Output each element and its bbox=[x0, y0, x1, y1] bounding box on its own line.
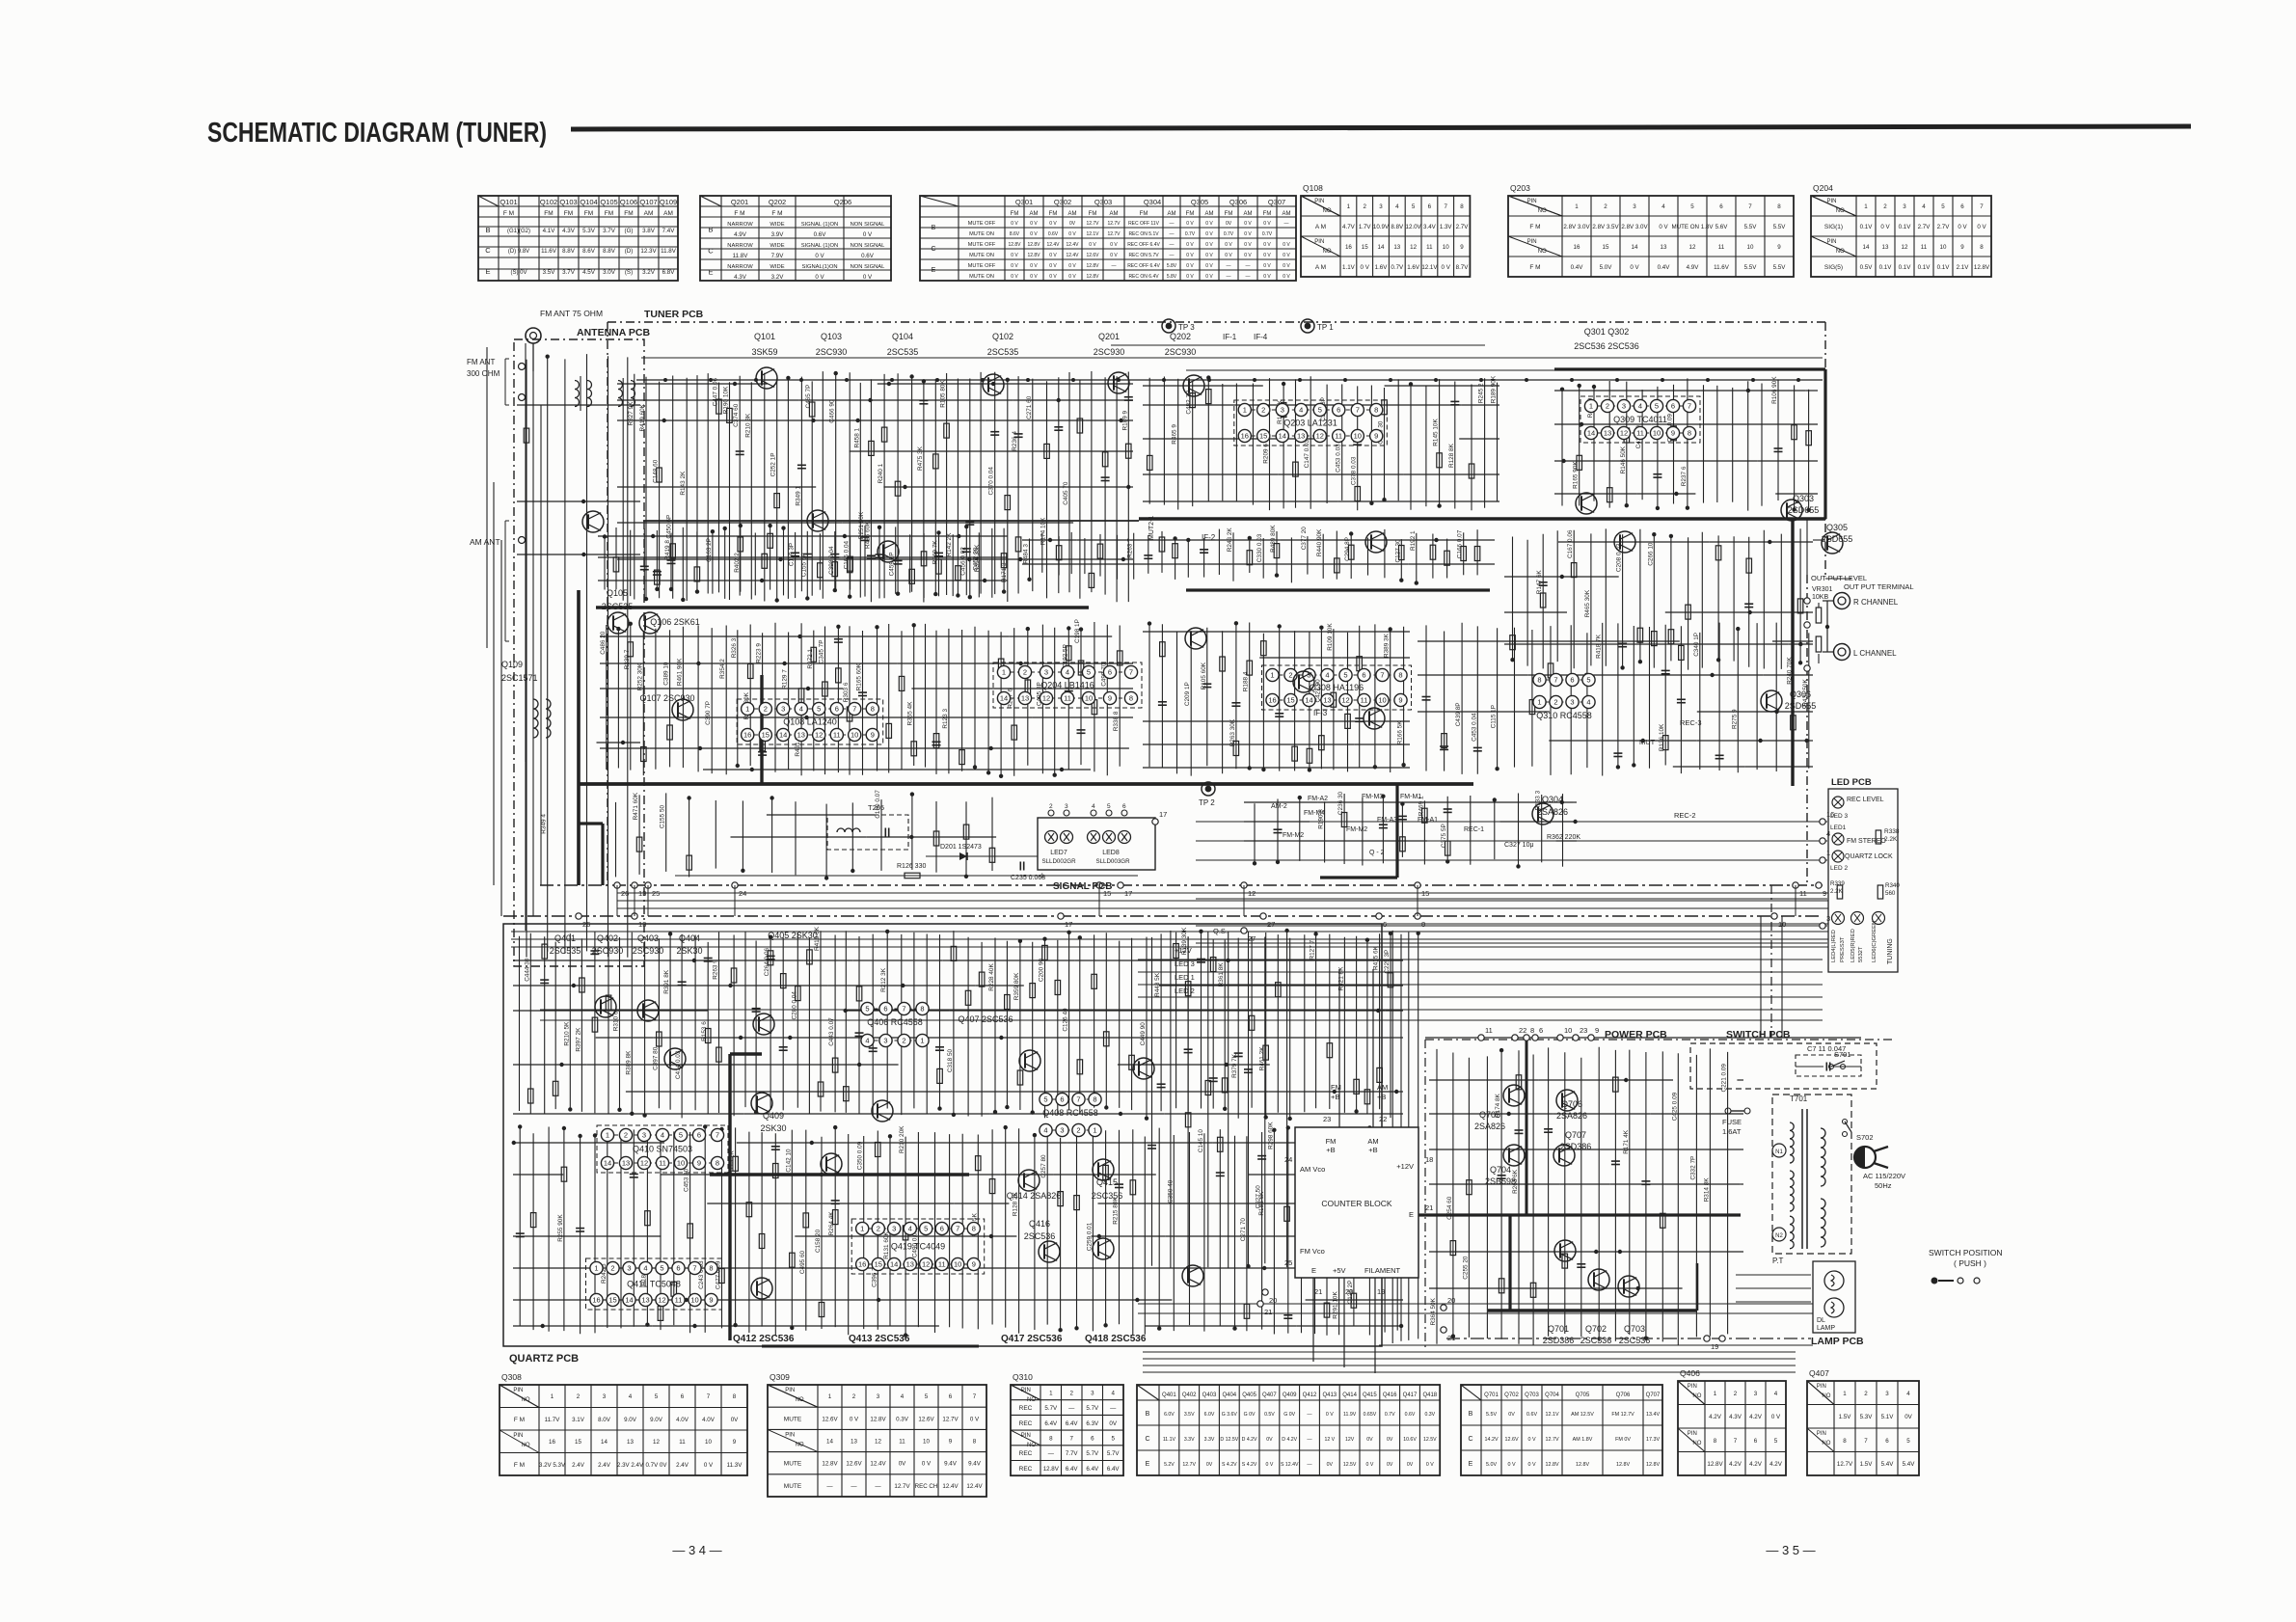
svg-text:LAMP PCB: LAMP PCB bbox=[1811, 1336, 1864, 1347]
wire cluster FM front end bbox=[617, 371, 1133, 603]
svg-text:12: 12 bbox=[1042, 694, 1050, 703]
svg-text:11: 11 bbox=[1636, 429, 1644, 438]
svg-text:REC: REC bbox=[1019, 1466, 1033, 1473]
svg-text:2SC930: 2SC930 bbox=[1165, 347, 1197, 357]
svg-text:C155 6P: C155 6P bbox=[800, 553, 807, 577]
transistor Q445 bbox=[872, 1100, 893, 1122]
transistor Q304 2SA826 bbox=[1532, 803, 1553, 825]
svg-text:C280 0.04: C280 0.04 bbox=[791, 991, 797, 1020]
svg-text:R440 90K: R440 90K bbox=[1316, 528, 1323, 556]
table Q701..Q707 voltages bbox=[1461, 1385, 1662, 1475]
svg-text:4.7V: 4.7V bbox=[1342, 224, 1356, 230]
svg-text:C340 1P: C340 1P bbox=[1693, 633, 1700, 657]
svg-text:R326 3: R326 3 bbox=[731, 637, 738, 658]
svg-text:NO: NO bbox=[522, 1397, 530, 1403]
svg-text:AM: AM bbox=[1068, 211, 1077, 217]
front-end top rail bbox=[636, 379, 1823, 381]
svg-text:—: — bbox=[1307, 1412, 1312, 1418]
svg-text:R314 8K: R314 8K bbox=[1703, 1177, 1710, 1203]
svg-text:SIG(1): SIG(1) bbox=[1824, 224, 1843, 230]
svg-text:12.8V: 12.8V bbox=[1707, 1461, 1723, 1468]
svg-text:0V: 0V bbox=[1327, 1462, 1334, 1468]
svg-text:R165 60K: R165 60K bbox=[856, 662, 863, 690]
svg-text:Q705: Q705 bbox=[1576, 1392, 1590, 1398]
svg-text:OUT PUT TERMINAL: OUT PUT TERMINAL bbox=[1844, 582, 1914, 591]
svg-text:Q201: Q201 bbox=[731, 198, 748, 206]
svg-text:0 V: 0 V bbox=[1030, 263, 1038, 269]
svg-text:R210 3K: R210 3K bbox=[744, 413, 751, 438]
svg-text:LED 3: LED 3 bbox=[1175, 960, 1195, 968]
svg-text:E: E bbox=[1469, 1461, 1473, 1468]
transistor Q113 bbox=[1365, 531, 1387, 553]
svg-text:MUTE OFF: MUTE OFF bbox=[968, 221, 996, 227]
svg-text:0.7V: 0.7V bbox=[1185, 231, 1196, 237]
svg-text:(G1)(G2): (G1)(G2) bbox=[507, 229, 530, 234]
svg-text:3: 3 bbox=[627, 1264, 631, 1273]
svg-text:AM: AM bbox=[644, 210, 654, 217]
svg-text:5.8V: 5.8V bbox=[1167, 274, 1177, 280]
svg-text:Q415: Q415 bbox=[1096, 1177, 1118, 1187]
svg-text:LED PCB: LED PCB bbox=[1831, 777, 1872, 788]
svg-text:5.7V: 5.7V bbox=[1086, 1450, 1099, 1457]
svg-text:REC ON 6.4V: REC ON 6.4V bbox=[1128, 274, 1159, 280]
svg-text:4: 4 bbox=[1111, 1390, 1115, 1396]
svg-text:14: 14 bbox=[1863, 244, 1870, 251]
table Tr Q401..Q418 voltages bbox=[1137, 1385, 1440, 1475]
svg-text:10: 10 bbox=[1747, 244, 1754, 251]
svg-text:C271 70: C271 70 bbox=[1240, 1218, 1247, 1242]
svg-text:8.7V: 8.7V bbox=[1456, 264, 1470, 271]
svg-text:11.7V: 11.7V bbox=[545, 1417, 561, 1423]
svg-text:6: 6 bbox=[1122, 803, 1126, 810]
svg-text:2: 2 bbox=[624, 1131, 628, 1140]
svg-text:Q407: Q407 bbox=[1262, 1392, 1277, 1398]
svg-text:3.7V: 3.7V bbox=[603, 228, 616, 234]
svg-text:11: 11 bbox=[1335, 432, 1342, 441]
svg-text:R397 2K: R397 2K bbox=[575, 1027, 581, 1052]
svg-text:Q201: Q201 bbox=[1098, 332, 1120, 341]
svg-text:3.7V: 3.7V bbox=[562, 269, 576, 276]
svg-text:REC ON 5.7V: REC ON 5.7V bbox=[1128, 253, 1159, 258]
svg-text:4: 4 bbox=[643, 1264, 647, 1273]
svg-text:Q.S.: Q.S. bbox=[1213, 927, 1228, 935]
switch PCB dashed box bbox=[1690, 1043, 1877, 1089]
svg-text:14: 14 bbox=[1587, 429, 1595, 438]
svg-text:C: C bbox=[1468, 1436, 1472, 1443]
svg-text:—: — bbox=[1112, 263, 1117, 269]
svg-text:R209 6: R209 6 bbox=[1263, 444, 1270, 464]
svg-text:Q701: Q701 bbox=[1484, 1392, 1499, 1398]
svg-text:C148 60: C148 60 bbox=[653, 459, 660, 483]
svg-text:D 12.5V: D 12.5V bbox=[1220, 1437, 1238, 1443]
svg-text:C198 1P: C198 1P bbox=[1074, 619, 1081, 643]
svg-text:10: 10 bbox=[690, 1296, 698, 1305]
transistor Q405 2SK30 bbox=[1019, 1050, 1040, 1071]
svg-text:12: 12 bbox=[922, 1260, 930, 1269]
svg-text:LED 1: LED 1 bbox=[1175, 973, 1195, 982]
svg-text:AM 1.8V: AM 1.8V bbox=[1573, 1437, 1593, 1443]
svg-text:FM: FM bbox=[584, 210, 593, 217]
svg-text:R237 6: R237 6 bbox=[1681, 466, 1688, 486]
counter block feed arrows bbox=[1338, 969, 1340, 1127]
svg-text:—: — bbox=[1170, 231, 1175, 237]
svg-text:SIGNAL PCB: SIGNAL PCB bbox=[1053, 881, 1113, 892]
svg-text:0 V: 0 V bbox=[1225, 253, 1232, 258]
svg-text:10KB: 10KB bbox=[1812, 594, 1828, 601]
resistor R339 2.2K bbox=[1837, 885, 1843, 899]
svg-text:N2: N2 bbox=[1775, 1233, 1783, 1239]
LED2 QUARTZ LOCK bbox=[1832, 851, 1844, 862]
svg-text:15: 15 bbox=[1286, 696, 1294, 705]
svg-text:12.7V: 12.7V bbox=[1545, 1437, 1558, 1443]
svg-text:(G): (G) bbox=[625, 228, 634, 234]
title rule line bbox=[571, 126, 2191, 129]
svg-text:MUTE ON: MUTE ON bbox=[969, 253, 994, 258]
svg-text:0 V: 0 V bbox=[1205, 242, 1213, 248]
transistor Q112 bbox=[878, 541, 899, 562]
svg-text:16: 16 bbox=[1826, 810, 1834, 819]
transistor Q402 2SC930 bbox=[637, 1000, 659, 1021]
svg-text:B: B bbox=[1469, 1411, 1473, 1418]
svg-text:TP 3: TP 3 bbox=[1178, 323, 1195, 332]
svg-text:0 V: 0 V bbox=[1011, 263, 1018, 269]
transistor Q407 2SC536 bbox=[1133, 1058, 1154, 1079]
svg-text:4: 4 bbox=[1906, 1391, 1910, 1397]
svg-text:+12V: +12V bbox=[1396, 1162, 1414, 1171]
svg-text:C127 30: C127 30 bbox=[1394, 539, 1401, 563]
svg-text:C266 10: C266 10 bbox=[1647, 542, 1654, 566]
svg-text:FM: FM bbox=[1186, 211, 1195, 217]
svg-text:REC: REC bbox=[1019, 1420, 1033, 1427]
svg-text:13: 13 bbox=[797, 731, 805, 740]
svg-text:REC OFF 6.4V: REC OFF 6.4V bbox=[1127, 242, 1160, 248]
svg-text:15: 15 bbox=[608, 1296, 616, 1305]
svg-text:2: 2 bbox=[1023, 668, 1027, 677]
svg-text:1.6V: 1.6V bbox=[1375, 264, 1389, 271]
svg-text:0 V: 0 V bbox=[1266, 1462, 1274, 1468]
svg-text:PIN: PIN bbox=[513, 1433, 523, 1439]
bus wire heavy main B+ rail bbox=[578, 782, 1473, 786]
svg-text:17: 17 bbox=[1159, 810, 1167, 819]
svg-text:11: 11 bbox=[675, 1296, 683, 1305]
svg-text:7: 7 bbox=[1356, 406, 1360, 415]
svg-text:Q407 2SC536: Q407 2SC536 bbox=[958, 1014, 1013, 1024]
svg-text:+12V: +12V bbox=[1175, 946, 1192, 955]
R channel jack bbox=[1834, 593, 1850, 609]
svg-text:0 V: 0 V bbox=[1977, 224, 1986, 230]
transistor Q307 2SC945 bbox=[1185, 628, 1206, 649]
svg-text:0 V: 0 V bbox=[1068, 231, 1076, 237]
svg-text:25: 25 bbox=[1284, 1258, 1292, 1267]
svg-text:8: 8 bbox=[1777, 203, 1781, 210]
svg-text:8: 8 bbox=[1980, 244, 1984, 251]
svg-text:2.4V: 2.4V bbox=[572, 1462, 585, 1469]
svg-text:8: 8 bbox=[1688, 429, 1691, 438]
svg-text:C: C bbox=[931, 246, 935, 253]
svg-text:FM: FM bbox=[564, 210, 573, 217]
svg-text:0.1V: 0.1V bbox=[1899, 224, 1912, 230]
svg-text:C160 0.07: C160 0.07 bbox=[875, 790, 881, 819]
svg-text:TUNING: TUNING bbox=[1887, 938, 1894, 964]
svg-text:0 V: 0 V bbox=[1186, 221, 1194, 227]
svg-text:5.5V: 5.5V bbox=[1773, 264, 1787, 271]
svg-text:4: 4 bbox=[1395, 203, 1399, 210]
transistor Q2 2SC945 bbox=[1293, 671, 1314, 692]
svg-text:—: — bbox=[875, 1483, 881, 1490]
svg-text:FM-M2: FM-M2 bbox=[1346, 826, 1367, 833]
svg-text:6: 6 bbox=[1719, 203, 1723, 210]
AC plug bbox=[1854, 1147, 1876, 1168]
svg-text:4.3V: 4.3V bbox=[1729, 1414, 1742, 1420]
transistor Q412 bbox=[751, 1278, 772, 1299]
svg-text:Q109: Q109 bbox=[660, 198, 677, 206]
svg-text:5.5V: 5.5V bbox=[1744, 224, 1758, 230]
svg-text:R263 7: R263 7 bbox=[1127, 538, 1134, 558]
svg-text:5: 5 bbox=[1111, 1436, 1115, 1443]
svg-text:5.5V: 5.5V bbox=[1744, 264, 1758, 271]
svg-text:5: 5 bbox=[1107, 803, 1111, 810]
svg-text:C345 7P: C345 7P bbox=[819, 640, 825, 664]
svg-text:AM: AM bbox=[663, 210, 673, 217]
svg-text:—: — bbox=[1307, 1437, 1312, 1443]
svg-text:T701: T701 bbox=[1790, 1095, 1808, 1103]
svg-text:AM: AM bbox=[1377, 1083, 1388, 1092]
bus wire heavy LA1240 vertical bbox=[760, 675, 763, 784]
svg-text:4.2V: 4.2V bbox=[1749, 1461, 1763, 1468]
svg-text:WIDE: WIDE bbox=[770, 222, 784, 228]
svg-text:12.4V: 12.4V bbox=[870, 1461, 886, 1468]
svg-text:PRESS3T: PRESS3T bbox=[1840, 936, 1846, 962]
resistor R340 560 bbox=[1877, 885, 1883, 899]
svg-text:1: 1 bbox=[1826, 849, 1830, 857]
svg-text:12.8V: 12.8V bbox=[1008, 242, 1021, 248]
svg-text:LED 2: LED 2 bbox=[1175, 987, 1195, 995]
svg-text:R415 6K: R415 6K bbox=[1373, 945, 1380, 970]
svg-text:8.8V: 8.8V bbox=[562, 248, 576, 255]
svg-text:Q306: Q306 bbox=[1229, 198, 1247, 206]
svg-text:1: 1 bbox=[1093, 1126, 1096, 1135]
svg-text:12: 12 bbox=[658, 1296, 665, 1305]
svg-text:Q406 RC4558: Q406 RC4558 bbox=[867, 1017, 923, 1027]
svg-text:C209 1P: C209 1P bbox=[1184, 682, 1191, 706]
svg-text:AM-2: AM-2 bbox=[1271, 803, 1287, 810]
svg-text:4: 4 bbox=[1092, 803, 1095, 810]
svg-text:17.3V: 17.3V bbox=[1646, 1437, 1660, 1443]
signal PCB box bbox=[1038, 818, 1155, 870]
svg-text:3: 3 bbox=[1379, 203, 1383, 210]
svg-text:Q403: Q403 bbox=[637, 933, 659, 943]
IC Q203 LA1231 pin row top bbox=[1245, 409, 1376, 411]
IC Q108 LA1240 pin row top bbox=[747, 708, 873, 710]
svg-text:Q203: Q203 bbox=[1510, 183, 1530, 193]
svg-text:R255 90K: R255 90K bbox=[557, 1214, 564, 1242]
svg-text:0 V: 0 V bbox=[1263, 221, 1271, 227]
svg-text:12: 12 bbox=[1341, 696, 1349, 705]
svg-text:5.0V: 5.0V bbox=[1600, 264, 1613, 271]
svg-text:5.2V: 5.2V bbox=[1164, 1462, 1175, 1468]
IC Q309 TC4011 outline bbox=[1580, 396, 1700, 443]
svg-text:12.6V: 12.6V bbox=[1504, 1437, 1518, 1443]
svg-text:0 V: 0 V bbox=[1089, 242, 1096, 248]
svg-text:7: 7 bbox=[1069, 1436, 1073, 1443]
svg-text:C486 20: C486 20 bbox=[600, 631, 607, 655]
svg-text:9: 9 bbox=[1777, 244, 1781, 251]
svg-text:R362 220K: R362 220K bbox=[1547, 834, 1580, 841]
svg-text:R165 90K: R165 90K bbox=[1573, 461, 1580, 489]
svg-text:8: 8 bbox=[920, 1005, 924, 1014]
svg-text:R215 80K: R215 80K bbox=[1113, 1197, 1120, 1225]
svg-text:C425 0.09: C425 0.09 bbox=[1671, 1092, 1678, 1121]
transistor Q201 2SC930 bbox=[1108, 372, 1129, 393]
svg-text:C327 10μ: C327 10μ bbox=[1504, 842, 1534, 849]
svg-text:C155 50: C155 50 bbox=[660, 804, 666, 828]
LED PCB box bbox=[1828, 789, 1898, 972]
bus wire heavy quartz bottom bbox=[762, 1345, 979, 1348]
svg-text:0V: 0V bbox=[1266, 1437, 1273, 1443]
bus junction 8 line2 bbox=[1415, 913, 1420, 919]
wires to output bbox=[1825, 578, 1851, 580]
svg-text:0.1V: 0.1V bbox=[1937, 264, 1951, 271]
svg-text:0.7V: 0.7V bbox=[1262, 231, 1273, 237]
wire bundle bottom interconnect bbox=[1143, 1352, 1796, 1372]
svg-text:LED 2: LED 2 bbox=[1830, 865, 1848, 872]
svg-text:12.8V: 12.8V bbox=[1086, 263, 1099, 269]
svg-text:10: 10 bbox=[923, 1439, 930, 1446]
svg-text:LED8: LED8 bbox=[1102, 850, 1120, 856]
svg-text:14: 14 bbox=[601, 1439, 608, 1446]
svg-text:C443 0.07: C443 0.07 bbox=[828, 1017, 835, 1046]
svg-text:2.8V 3.0V: 2.8V 3.0V bbox=[1621, 224, 1648, 230]
svg-text:Q404: Q404 bbox=[1222, 1392, 1236, 1398]
svg-text:NO: NO bbox=[1692, 1441, 1701, 1446]
svg-text:Q304: Q304 bbox=[1144, 198, 1161, 206]
svg-text:PIN: PIN bbox=[1817, 1431, 1826, 1437]
svg-text:—: — bbox=[1170, 242, 1175, 248]
svg-text:Q705: Q705 bbox=[1479, 1110, 1500, 1120]
wire cluster Q107 LA1240 quad bbox=[600, 619, 1133, 778]
svg-text:5: 5 bbox=[1412, 203, 1416, 210]
svg-text:R338: R338 bbox=[1884, 828, 1900, 835]
svg-text:3: 3 bbox=[603, 1393, 607, 1400]
svg-text:2SD386: 2SD386 bbox=[1543, 1336, 1575, 1345]
svg-text:FM: FM bbox=[1263, 211, 1272, 217]
svg-text:—: — bbox=[1048, 1450, 1055, 1457]
svg-text:SIG(5): SIG(5) bbox=[1824, 264, 1843, 271]
svg-text:Q412: Q412 bbox=[1303, 1392, 1317, 1398]
svg-text:12: 12 bbox=[640, 1159, 648, 1168]
transformer primary N2 node bbox=[1772, 1228, 1786, 1241]
svg-text:Q204: Q204 bbox=[1813, 183, 1833, 193]
svg-text:PIN: PIN bbox=[1688, 1431, 1697, 1437]
svg-text:1: 1 bbox=[745, 705, 749, 714]
IC Q410 SN74503 pin row top bbox=[608, 1134, 717, 1136]
transistor Q704 2SB598 bbox=[1503, 1145, 1525, 1166]
svg-text:10.6V: 10.6V bbox=[1403, 1437, 1417, 1443]
svg-text:MUTE: MUTE bbox=[784, 1461, 802, 1468]
svg-text:0.6V: 0.6V bbox=[861, 253, 875, 259]
svg-text:2: 2 bbox=[1076, 1126, 1080, 1135]
svg-text:10: 10 bbox=[1564, 1026, 1572, 1035]
svg-text:7: 7 bbox=[1553, 676, 1557, 685]
svg-text:12.7V: 12.7V bbox=[1837, 1461, 1853, 1468]
svg-text:MUTE: MUTE bbox=[784, 1416, 802, 1422]
transistor Q302 2SC536 bbox=[1614, 531, 1635, 553]
svg-text:1: 1 bbox=[551, 1393, 554, 1400]
svg-text:13: 13 bbox=[1882, 244, 1889, 251]
svg-text:C119 3P: C119 3P bbox=[789, 543, 796, 566]
svg-text:11.6V: 11.6V bbox=[541, 248, 557, 255]
svg-text:0 V: 0 V bbox=[1283, 242, 1290, 248]
svg-text:R298 60K: R298 60K bbox=[1267, 1122, 1274, 1149]
svg-text:4.1V: 4.1V bbox=[543, 228, 556, 234]
svg-text:8: 8 bbox=[1843, 1438, 1847, 1445]
svg-text:FM-M4: FM-M4 bbox=[1304, 810, 1325, 817]
svg-text:(D): (D) bbox=[625, 248, 634, 255]
IC Q203 LA1231 pin row bottom bbox=[1245, 435, 1376, 437]
svg-text:16: 16 bbox=[858, 1260, 866, 1269]
transistor Q415 2SC356 bbox=[1093, 1159, 1114, 1180]
svg-text:7: 7 bbox=[973, 1393, 977, 1400]
svg-text:Q414 2SA826: Q414 2SA826 bbox=[1007, 1191, 1062, 1201]
svg-text:5.8V: 5.8V bbox=[1167, 263, 1177, 269]
diode D201 1S2473 bbox=[959, 852, 967, 860]
svg-text:12.4V: 12.4V bbox=[942, 1483, 959, 1490]
IC Q309 TC4011 pin row bottom bbox=[1591, 432, 1689, 434]
svg-text:Q107: Q107 bbox=[639, 198, 657, 206]
svg-text:12: 12 bbox=[653, 1439, 660, 1446]
svg-text:(S) 0V: (S) 0V bbox=[510, 270, 527, 276]
wire cluster quartz divider block bbox=[512, 1122, 1404, 1338]
svg-text:13.4V: 13.4V bbox=[1646, 1412, 1660, 1418]
svg-text:MUTE ON 1.8V: MUTE ON 1.8V bbox=[1672, 224, 1715, 230]
svg-text:12.4V: 12.4V bbox=[966, 1483, 983, 1490]
svg-text:R166 5K: R166 5K bbox=[1397, 720, 1404, 745]
bus junction 13 line2 bbox=[632, 913, 637, 919]
transistor Q401 2SC535 bbox=[595, 996, 616, 1017]
transistor Q301 2SC536 bbox=[1576, 493, 1597, 514]
svg-text:NO: NO bbox=[796, 1442, 804, 1447]
svg-text:9: 9 bbox=[1108, 694, 1112, 703]
svg-text:TUNER PCB: TUNER PCB bbox=[644, 309, 704, 320]
svg-text:NON SIGNAL: NON SIGNAL bbox=[851, 243, 886, 249]
svg-text:FM ANT: FM ANT bbox=[467, 358, 495, 366]
svg-text:0 V: 0 V bbox=[1426, 1462, 1434, 1468]
svg-text:0V: 0V bbox=[1387, 1462, 1393, 1468]
svg-text:10: 10 bbox=[851, 731, 858, 740]
svg-text:11.6V: 11.6V bbox=[1714, 264, 1730, 271]
svg-text:23: 23 bbox=[1580, 1026, 1587, 1035]
svg-text:14: 14 bbox=[625, 1296, 633, 1305]
svg-text:6.0V: 6.0V bbox=[1164, 1412, 1175, 1418]
svg-text:PIN: PIN bbox=[1527, 239, 1537, 245]
svg-text:5.0V: 5.0V bbox=[1486, 1462, 1497, 1468]
svg-text:2.4V: 2.4V bbox=[676, 1462, 689, 1469]
svg-text:12: 12 bbox=[1620, 429, 1628, 438]
wire bundle counter bottom feeds bbox=[1138, 1304, 1813, 1313]
svg-text:FM: FM bbox=[1049, 211, 1058, 217]
svg-text:5.3V: 5.3V bbox=[1860, 1414, 1874, 1420]
svg-text:FM: FM bbox=[544, 210, 553, 217]
svg-text:4: 4 bbox=[1043, 1126, 1047, 1135]
svg-text:13: 13 bbox=[1393, 244, 1400, 251]
svg-text:C236 30: C236 30 bbox=[1337, 791, 1344, 815]
svg-text:21: 21 bbox=[1314, 1287, 1322, 1296]
svg-text:1: 1 bbox=[594, 1264, 598, 1273]
svg-text:6: 6 bbox=[1091, 1436, 1094, 1443]
svg-text:C332 7P: C332 7P bbox=[1689, 1156, 1696, 1180]
svg-text:7: 7 bbox=[1980, 203, 1984, 210]
svg-text:Q104: Q104 bbox=[580, 198, 597, 206]
